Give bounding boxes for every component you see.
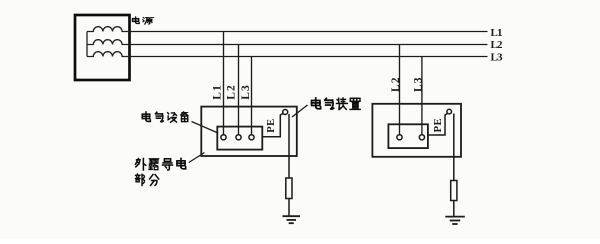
svg-text:PE: PE — [433, 118, 444, 132]
svg-text:L2: L2 — [225, 85, 237, 100]
svg-text:L3: L3 — [412, 77, 424, 92]
svg-text:L3: L3 — [240, 85, 252, 100]
svg-text:L2: L2 — [491, 39, 504, 51]
svg-text:L1: L1 — [211, 85, 223, 100]
svg-text:L1: L1 — [491, 27, 503, 39]
svg-text:L3: L3 — [491, 51, 504, 63]
svg-text:L2: L2 — [390, 77, 402, 92]
svg-text:PE: PE — [266, 119, 277, 133]
